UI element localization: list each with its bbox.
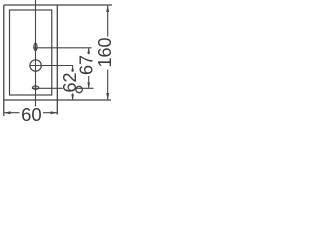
dimension line 67 bottom arrow tail	[88, 76, 90, 88]
svg-text:160: 160	[95, 37, 113, 67]
dimension 60 line left segment	[4, 112, 20, 114]
center mounting hole (circle)	[30, 60, 41, 71]
svg-text:60: 60	[21, 104, 42, 125]
arrowhead 62 dim bottom (pointing down)	[71, 95, 74, 101]
fixture outer body bottom edge (extended right as extension line for 160 dim)	[4, 99, 111, 101]
dimension line 62 bottom arrow tail	[72, 93, 74, 99]
phi symbol ring on bottom slot extension line	[76, 86, 82, 92]
background	[0, 0, 113, 127]
dimension line 67 top arrow tail	[88, 48, 90, 54]
extension line from bottom slot center (left segment)	[32, 87, 63, 89]
fixture outer body left edge (extended down as extension line for 60 dim)	[3, 5, 5, 116]
arrowhead 60 dim right (pointing right)	[51, 111, 58, 114]
vertical centerline	[35, 0, 37, 106]
arrowhead 160 dim top (pointing up)	[106, 5, 109, 12]
extension line through circle center	[29, 65, 73, 67]
arrowhead 62 dim top (pointing up)	[71, 66, 74, 71]
arrowhead 67 dim bottom (pointing down)	[87, 83, 90, 89]
arrowhead 67 dim top (pointing up)	[87, 48, 90, 54]
svg-text:62: 62	[60, 72, 80, 92]
dimension 60 line right segment	[43, 112, 57, 114]
arrowhead 60 dim left (pointing left)	[4, 111, 11, 114]
dimension line 62 top arrow tail	[72, 66, 74, 72]
top mounting slot (vertical ellipse)	[34, 43, 37, 50]
dimension line 160 upper segment	[107, 5, 109, 37]
dimension line 160 lower segment	[107, 70, 109, 101]
extension line from bottom slot center (right segment through phi ring)	[76, 87, 93, 89]
fixture outer body right edge (extended down as extension line for 60 dim)	[56, 5, 58, 115]
bottom mounting slot (horizontal ellipse)	[32, 86, 38, 89]
svg-text:67: 67	[77, 55, 97, 75]
fixture outer body top edge (extended right as extension line for 160 dim)	[4, 4, 112, 6]
inner panel rectangle	[10, 10, 52, 95]
extension line from top slot center	[33, 47, 91, 49]
arrowhead 160 dim bottom (pointing down)	[106, 93, 109, 100]
